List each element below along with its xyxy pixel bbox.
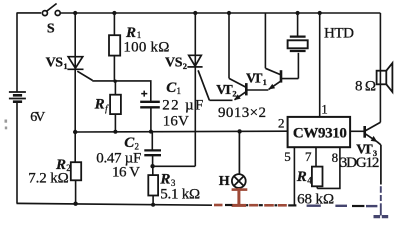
wire ground lead dashes <box>380 186 382 215</box>
wire VS2 branch vertical <box>194 13 196 166</box>
thyristor VS2 <box>187 55 209 100</box>
resistor R3 <box>148 166 158 205</box>
svg-text:2: 2 <box>232 88 236 98</box>
wire VS1 branch vertical <box>74 13 76 162</box>
wire B to VS2 <box>153 165 196 167</box>
speaker 8 Ohm <box>377 63 393 92</box>
wire left rail <box>16 13 18 204</box>
lamp H <box>232 174 246 188</box>
transistor VT2 <box>229 13 246 100</box>
node top rail / VS1 <box>73 11 77 15</box>
svg-text:1: 1 <box>321 102 328 117</box>
svg-text:VT: VT <box>216 83 233 98</box>
svg-text:2: 2 <box>183 61 187 71</box>
svg-text:1: 1 <box>177 86 182 96</box>
thyristor VS1 <box>67 57 92 81</box>
svg-text:R: R <box>296 169 307 185</box>
svg-text:H: H <box>219 174 230 189</box>
svg-text:1: 1 <box>63 61 67 71</box>
speck <box>5 127 7 130</box>
resistor R2 <box>71 162 81 203</box>
battery 6V <box>9 92 26 102</box>
svg-text:R: R <box>94 97 105 113</box>
node top rail / R1 <box>112 11 116 15</box>
wire bottom rail solid <box>17 203 213 205</box>
wire bottom rail dashes red <box>214 204 287 207</box>
node top rail / VT2 collector <box>227 11 231 15</box>
svg-text:68 kΩ: 68 kΩ <box>297 191 334 207</box>
wire lamp branch <box>238 131 240 174</box>
wire lamp red lead <box>232 188 248 206</box>
node bottom rail / R2 <box>73 202 77 206</box>
wire right rail <box>379 13 381 122</box>
svg-text:S: S <box>47 22 55 37</box>
svg-text:8: 8 <box>332 150 339 165</box>
node R1-Rf junction <box>114 80 117 83</box>
svg-text:VS: VS <box>165 56 183 71</box>
wire VS1 gate horizontal <box>92 81 151 102</box>
arrowhead VT1 emitter <box>268 84 275 90</box>
wire pin1 <box>319 13 321 117</box>
switch S <box>42 4 60 16</box>
pin 8 <box>317 147 340 188</box>
wire bottom rail dashes navy <box>307 204 378 207</box>
svg-text:100 kΩ: 100 kΩ <box>123 39 169 55</box>
node wire A / lamp <box>237 129 241 133</box>
wire VT3 emitter down <box>380 145 382 185</box>
svg-text:5.1 kΩ: 5.1 kΩ <box>160 187 200 203</box>
piezo HTD <box>288 13 308 79</box>
svg-text:1: 1 <box>263 77 267 87</box>
svg-text:CW9310: CW9310 <box>293 125 347 141</box>
IC CW9310 <box>288 117 351 147</box>
node top rail / piezo <box>296 11 300 15</box>
arrowhead VT2 emitter <box>234 94 241 100</box>
pin 7 / resistor R4 <box>312 147 323 188</box>
svg-text:4: 4 <box>307 175 312 185</box>
svg-text:8 Ω: 8 Ω <box>355 78 376 94</box>
svg-text:2: 2 <box>278 116 285 131</box>
resistor R1 <box>109 13 120 81</box>
svg-text:HTD: HTD <box>324 26 354 42</box>
svg-text:6V: 6V <box>30 110 45 125</box>
svg-text:3DG12: 3DG12 <box>340 155 380 171</box>
wire bottom rail dashes black <box>225 205 364 206</box>
wire top rail left segment <box>17 12 42 14</box>
plus sign C1 <box>141 91 147 97</box>
speck <box>5 120 8 123</box>
wire VS2 gate to VT2 emitter <box>209 99 232 101</box>
svg-text:5: 5 <box>284 149 291 164</box>
node top rail / pin1 <box>318 11 322 15</box>
ground <box>374 215 389 218</box>
capacitor C2 <box>144 132 161 167</box>
svg-text:9013×2: 9013×2 <box>218 105 266 121</box>
node wire A / VS1 <box>73 130 77 134</box>
svg-text:VT: VT <box>246 71 263 86</box>
node wire A / Rf <box>113 130 117 134</box>
wire A horizontal (pin2 net) <box>75 130 287 133</box>
svg-text:7.2 kΩ: 7.2 kΩ <box>28 170 69 186</box>
node bottom rail / R3 <box>151 203 155 207</box>
wire top rail right segment <box>60 12 380 14</box>
transistor VT3 <box>350 122 381 145</box>
capacitor C1 <box>140 102 160 132</box>
transistor VT1 <box>247 13 298 90</box>
svg-text:16 V: 16 V <box>112 164 140 180</box>
svg-text:7: 7 <box>305 149 312 164</box>
svg-text:VS: VS <box>46 55 64 70</box>
pin 5 <box>293 147 295 206</box>
node wire A / C1 <box>149 130 153 134</box>
arrowhead VT3 emitter <box>371 136 378 142</box>
svg-text:R: R <box>159 171 170 187</box>
svg-text:22 µF: 22 µF <box>162 97 203 113</box>
resistor Rf <box>110 81 121 132</box>
node top rail / VS2 <box>193 11 197 15</box>
svg-text:16V: 16V <box>163 113 189 129</box>
node C2/R3 junction <box>150 164 154 168</box>
